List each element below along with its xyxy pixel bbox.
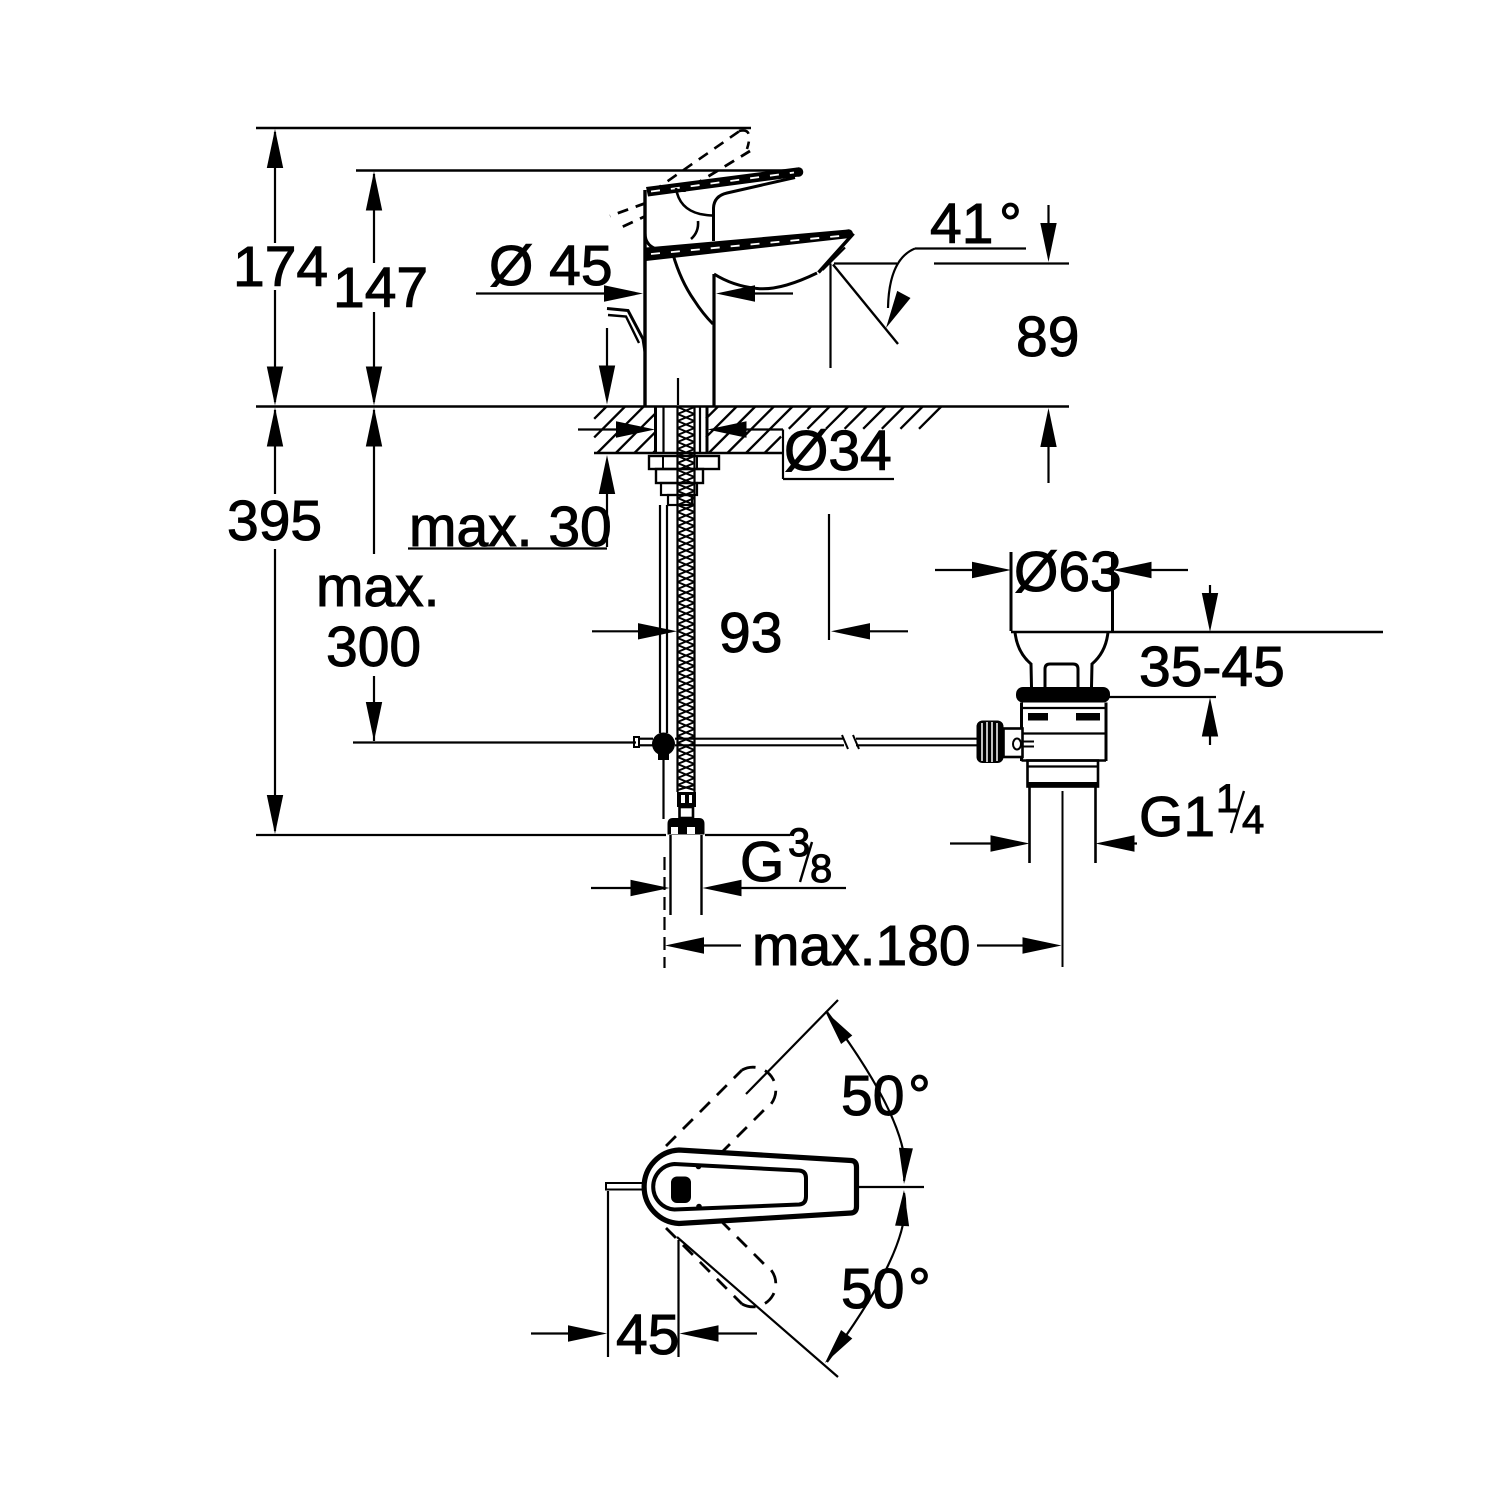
O-ring seal (black band) [1016,687,1110,703]
svg-text:Ø 45: Ø 45 [489,234,613,298]
dimension extension line: top of handle (147 level) [356,169,800,171]
svg-text:395: 395 [227,489,322,553]
dimension line Ø45 with arrows [476,292,606,294]
lever slot mark [671,1177,691,1204]
upper 50deg boundary line [746,1000,838,1094]
handle front tab [606,1183,646,1190]
handle underside and neck [714,178,796,242]
dimension max.30 (deck thickness) [606,328,608,368]
svg-text:147: 147 [333,256,428,320]
white parting dashes in handle band [651,173,794,192]
pull rod stub above deck [677,378,679,405]
dimension arrows Ø34 (shank) [578,428,619,430]
drain centerline [1062,791,1064,967]
svg-text:°: ° [999,192,1022,256]
41deg leader line [915,247,1026,249]
mounting nut [656,469,703,483]
body bottom [1022,759,1107,761]
svg-text:°: ° [908,1064,931,1128]
svg-text:50: 50 [841,1257,904,1321]
extension line at spout axis [828,514,830,640]
dimension 174 (vertical line + arrows) [274,132,276,243]
dimension 147 (vertical line + arrows) [373,174,375,263]
dimension G1 1/4 [950,842,993,844]
top view: dashed handle rotated up 50deg [666,1067,776,1154]
svg-text:G1: G1 [1139,785,1215,849]
dimension 395 (vertical line + arrows) [267,408,283,447]
extension line at hose end (395 bottom) [256,834,666,836]
drain pull rod (vertical) [659,505,661,733]
41deg leader arc with arrow [888,249,915,309]
dimension Ø63 [935,569,973,571]
hose collar [680,807,694,818]
svg-text:1: 1 [1216,777,1238,821]
valve body [1020,703,1023,730]
raised handle (dashed, open position) [610,130,750,227]
white parting dashes in spout band [651,236,845,255]
plug lift knob [1045,664,1078,687]
body bottom-left corner curve [645,233,660,250]
flange underside / seat line + 35-45 upper extension [1011,631,1383,633]
svg-text:300: 300 [326,615,421,679]
rod continues below ball [662,760,664,819]
rod left stub and end cap [638,738,653,740]
extension line horizontal at outlet level [834,262,897,264]
svg-text:35-45: 35-45 [1139,635,1285,699]
lower 50deg arc with arrows [827,1193,905,1362]
cartridge dome arc [676,188,712,216]
top view: inner outline [653,1164,806,1210]
svg-text:°: ° [908,1257,931,1321]
dimension max.180 [665,937,704,953]
dimension 35-45 [1107,696,1216,698]
dimension G3/8 (hose thread) [591,887,633,889]
knurled adjustment knob [977,721,1004,764]
handle lever tail hook [607,309,645,353]
aerator face (double slant) [819,234,854,273]
svg-text:max.180: max.180 [752,914,971,978]
svg-text:50: 50 [841,1064,904,1128]
hose end connector [677,792,696,807]
svg-text:4: 4 [1242,798,1264,842]
flange taper to neck [1015,632,1032,687]
countertop deck top line [256,405,1069,408]
rod right segment [856,738,977,740]
svg-text:Ø34: Ø34 [784,419,892,483]
svg-text:G: G [740,830,784,894]
svg-text:max.: max. [316,555,440,619]
spout-body junction curve [672,251,713,324]
svg-text:93: 93 [719,601,782,665]
overflow slots [1028,713,1048,721]
svg-text:174: 174 [233,235,328,299]
countertop deck bottom line [594,452,783,455]
body step line [1022,732,1107,734]
top view: dashed handle rotated down 50deg [666,1220,776,1307]
swivel centerline [856,1186,924,1188]
dimension 93 [592,630,640,632]
jet direction diagonal [833,265,898,345]
svg-text:41: 41 [930,192,993,256]
flexible supply hose (braided) [676,406,678,792]
bottom retaining nut [1028,761,1099,787]
spout underside curve [714,273,817,289]
threaded shank through deck [654,406,657,453]
svg-text:45: 45 [616,1303,679,1367]
leader elbow to label [782,430,784,480]
dome lower arc [691,221,698,239]
extension line faucet side (dashed) [663,857,665,968]
dimension 89 (vertical, arrows outside) [1047,205,1049,226]
svg-text:8: 8 [810,847,832,891]
G3/8 union nut [668,818,705,835]
tailpipe G1 1/4 [1028,787,1031,863]
extension line at pull-rod level (max300 bottom) [353,741,636,743]
body left edge [643,190,646,406]
nut steps [661,483,697,495]
dimension extension line: top of raised handle (174 level) [256,127,751,129]
svg-text:89: 89 [1016,305,1079,369]
deck hatching [594,407,941,454]
extension line vertical at spout outlet [829,264,831,369]
clamp screw [1013,739,1021,750]
spout (thick band) [646,230,850,262]
rod break marks [842,735,848,749]
top view: solid handle outer outline [644,1150,856,1224]
horizontal pull rod to drain [675,738,844,740]
supply pipe below nut [669,835,671,915]
lower 50deg boundary line [677,1237,838,1377]
upper 50deg arc with arrows [827,1012,905,1181]
dimension 45 (handle reach) [607,1191,609,1357]
drain flange walls [1010,552,1013,631]
handle lever (side view, thick band) [646,168,799,197]
dimension max.300 (vertical line + arrows) [366,408,382,447]
rod clamp plate [1004,729,1023,758]
lever dots [696,1164,702,1170]
body right edge [712,274,715,406]
ball joint [652,733,675,756]
mounting washer below deck [649,456,719,469]
svg-text:Ø63: Ø63 [1014,540,1122,604]
faucet head fill (covers dashed handle behind) [646,192,713,246]
